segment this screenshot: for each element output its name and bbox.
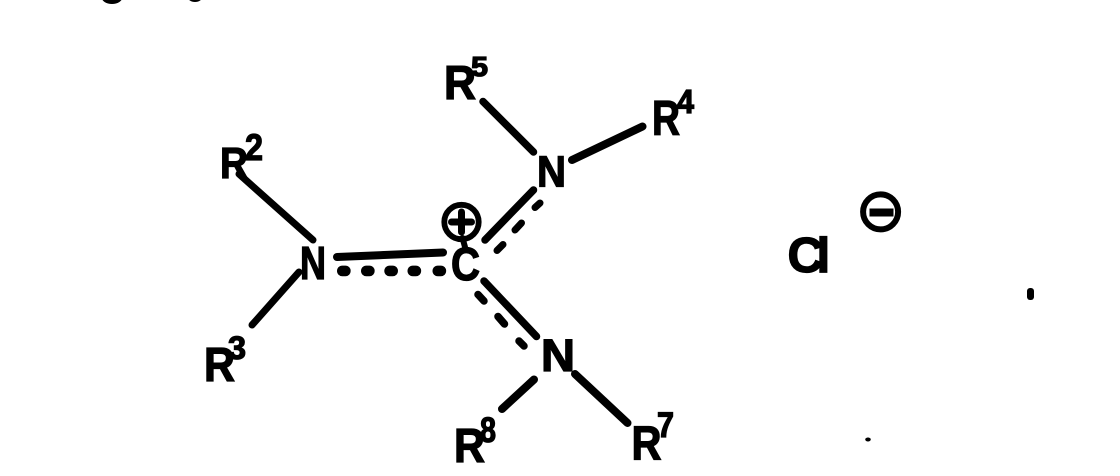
stray apostrophe mark right <box>1027 288 1034 300</box>
stray letter fragment top <box>188 0 203 2</box>
label R3 <box>204 330 246 392</box>
bond C to N2 solid <box>485 190 534 240</box>
label R4 <box>652 83 695 146</box>
stray letter fragment top-left <box>102 0 123 4</box>
svg-text:5: 5 <box>471 51 488 82</box>
bond N1=C solid line <box>337 253 443 258</box>
svg-text:2: 2 <box>245 127 263 168</box>
label R6 (glyph resembles 8) <box>454 411 496 473</box>
svg-text:N: N <box>541 330 575 381</box>
svg-text:7: 7 <box>657 406 674 445</box>
bond C to N2 dashed <box>497 203 540 251</box>
stray dot bottom <box>865 438 871 442</box>
bond N3 to R7 <box>575 374 628 423</box>
label R7 <box>632 406 675 471</box>
connector circle to C <box>463 238 466 247</box>
svg-text:N: N <box>300 237 326 289</box>
bond R3 to N1 <box>252 272 299 325</box>
svg-text:N: N <box>537 148 566 197</box>
svg-text:3: 3 <box>228 330 246 366</box>
svg-text:R: R <box>652 92 680 146</box>
bond N2 to R4 <box>572 127 643 161</box>
svg-text:4: 4 <box>677 83 695 120</box>
bond R2 to N1 <box>239 174 313 240</box>
svg-text:l: l <box>817 228 831 283</box>
label R5 <box>444 51 488 109</box>
bond C to N3 solid <box>484 281 537 337</box>
bond C to N3 dashed <box>478 295 524 347</box>
svg-text:C: C <box>451 238 480 290</box>
bond N1=C dashed line <box>337 266 446 277</box>
bond N3 to R6 <box>502 380 534 410</box>
label R2 <box>220 127 263 188</box>
plus charge circle on C <box>444 205 478 239</box>
minus charge circle <box>863 194 898 229</box>
svg-text:8: 8 <box>480 411 496 450</box>
bond R5 to N2 <box>483 102 534 153</box>
